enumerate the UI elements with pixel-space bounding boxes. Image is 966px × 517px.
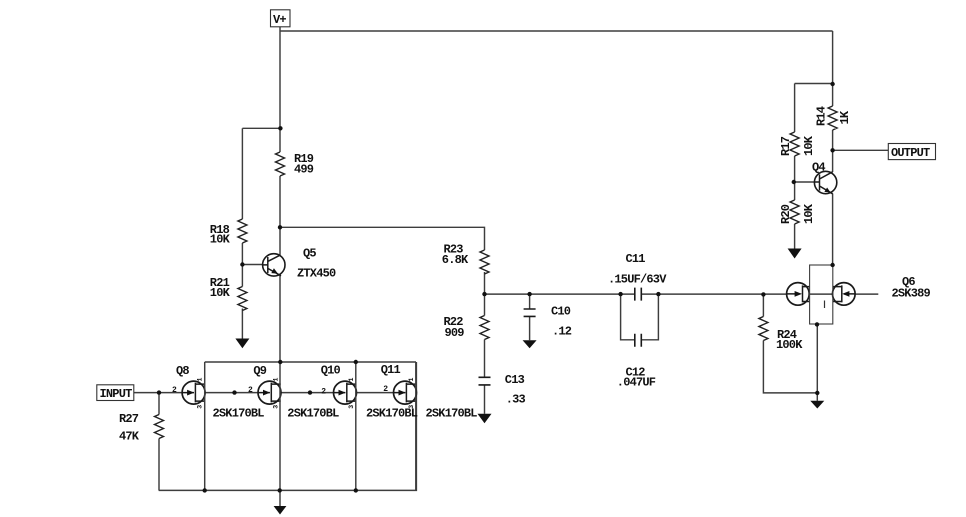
wire R27 to bottom bus xyxy=(158,439,160,491)
svg-text:909: 909 xyxy=(445,326,465,340)
node Q6 ground xyxy=(815,391,819,395)
svg-text:2: 2 xyxy=(248,386,253,395)
wire R24 stem top xyxy=(762,294,764,316)
svg-text:R17: R17 xyxy=(779,136,793,156)
resistor R27 47K xyxy=(155,415,164,439)
resistor R21 10K xyxy=(238,287,247,311)
svg-text:10K: 10K xyxy=(210,233,231,247)
wire V+ stem down to R19 xyxy=(279,27,281,152)
node INPUT/R27 xyxy=(157,390,161,394)
resistor R14 1K xyxy=(828,106,837,130)
node R18/R21/Q5 base xyxy=(240,262,244,266)
port box V+ xyxy=(271,10,291,27)
svg-text:C10: C10 xyxy=(551,305,571,319)
Q6 package box xyxy=(810,265,833,324)
node Q4 base xyxy=(792,180,796,184)
svg-text:.047UF: .047UF xyxy=(617,376,656,390)
capacitor C12 .047UF xyxy=(635,334,642,347)
resistor R24 100K xyxy=(759,317,768,341)
node R19/Q5 collector xyxy=(278,225,282,229)
capacitor C13 .33 xyxy=(479,377,491,385)
node Q6 drain top xyxy=(830,263,834,267)
svg-text:OUTPUT: OUTPUT xyxy=(891,146,930,160)
ground below C10 xyxy=(523,340,537,348)
wire jog left at node A xyxy=(242,127,280,129)
node R24 tap xyxy=(761,292,765,296)
JFET drain/source vertical wires xyxy=(205,362,416,490)
capacitor C10 .12 xyxy=(524,309,536,316)
svg-text:R14: R14 xyxy=(815,106,829,126)
wire gate bus Q8-Q11 xyxy=(159,392,406,394)
node gate bus a xyxy=(232,390,236,394)
svg-text:.33: .33 xyxy=(506,392,526,406)
svg-text:3: 3 xyxy=(197,405,204,409)
node C11 left xyxy=(618,292,622,296)
svg-text:R20: R20 xyxy=(779,204,793,224)
wire R22 to C13 xyxy=(484,340,486,378)
wire output node to OUTPUT xyxy=(833,149,889,151)
wire top rail xyxy=(280,30,833,32)
svg-text:10K: 10K xyxy=(210,286,231,300)
wire branch to R17 xyxy=(795,83,833,85)
svg-text:3: 3 xyxy=(408,405,415,409)
node drain bus Q10 xyxy=(354,360,358,364)
wire R21 to ground xyxy=(241,309,243,339)
wire signal right of C11 xyxy=(641,293,878,295)
svg-text:R27: R27 xyxy=(119,412,139,426)
svg-text:1: 1 xyxy=(408,378,415,382)
svg-text:3: 3 xyxy=(348,405,355,409)
transistor Q5 ZTX450 circle xyxy=(263,254,285,276)
svg-text:499: 499 xyxy=(294,163,314,177)
svg-text:47K: 47K xyxy=(119,429,140,443)
node source bus Q10 xyxy=(354,488,358,492)
wire INPUT to node xyxy=(134,392,159,394)
resistor R20 10K xyxy=(790,200,799,224)
ground below C13 xyxy=(478,414,492,424)
resistor R18 10K xyxy=(238,219,247,243)
node C11 right xyxy=(656,292,660,296)
svg-text:10K: 10K xyxy=(802,135,816,156)
JFET Q9 2SK170BL xyxy=(258,381,281,404)
svg-text:Q9: Q9 xyxy=(253,364,266,378)
wire bottom source bus xyxy=(159,362,417,490)
node Q6 source bottom xyxy=(815,322,819,326)
ground bottom center xyxy=(274,506,287,515)
JFET Q11 2SK170BL xyxy=(394,381,417,404)
wire signal left of C11 xyxy=(485,293,635,295)
svg-text:3: 3 xyxy=(272,405,279,409)
wire Q4 collector xyxy=(832,150,834,172)
wire left column down to R18 xyxy=(241,128,243,219)
svg-text:2SK170BL: 2SK170BL xyxy=(426,407,478,421)
wire Q4 emitter down to Q6 xyxy=(832,194,834,266)
node R23/R22 junction xyxy=(482,292,486,296)
Q6 pin 1 mark xyxy=(824,301,826,309)
wire C12 loop xyxy=(621,294,659,340)
port box OUTPUT xyxy=(888,144,935,160)
svg-text:.12: .12 xyxy=(552,325,572,339)
ground below Q6 xyxy=(810,401,824,409)
node drain bus Q9 xyxy=(278,360,282,364)
node gate bus b xyxy=(308,390,312,394)
node source bus Q9 xyxy=(278,488,282,492)
dual JFET Q6 2SK389 right half xyxy=(833,283,856,306)
svg-text:V+: V+ xyxy=(273,13,286,27)
resistor R23 6.8K xyxy=(480,250,489,274)
wire R27 stem xyxy=(158,393,160,415)
svg-text:Q5: Q5 xyxy=(303,246,316,260)
svg-text:C13: C13 xyxy=(505,373,525,387)
svg-text:1: 1 xyxy=(348,378,355,382)
node source bus Q8 xyxy=(203,488,207,492)
wire R17 stem xyxy=(794,84,796,133)
wire top drain bus xyxy=(205,361,416,363)
wire center ground stem xyxy=(279,490,281,506)
svg-text:.15UF/63V: .15UF/63V xyxy=(608,273,667,287)
svg-text:1: 1 xyxy=(272,378,279,382)
transistor Q4 circle xyxy=(814,171,836,194)
svg-text:Q4: Q4 xyxy=(812,161,825,175)
wire Q5 base xyxy=(242,264,263,266)
svg-text:2SK170BL: 2SK170BL xyxy=(213,407,265,421)
node V+/R18 branch xyxy=(278,126,282,130)
svg-text:1: 1 xyxy=(197,378,204,382)
svg-text:2SK170BL: 2SK170BL xyxy=(287,407,339,421)
svg-text:10K: 10K xyxy=(802,203,816,224)
port box INPUT xyxy=(97,385,134,401)
JFET Q10 2SK170BL xyxy=(334,381,357,404)
wire R20 to ground xyxy=(794,224,796,249)
resistor R19 499 xyxy=(155,106,838,439)
svg-text:2: 2 xyxy=(321,388,326,397)
svg-text:ZTX450: ZTX450 xyxy=(297,267,336,281)
JFET Q8 2SK170BL xyxy=(182,381,205,404)
resistor R17 10K xyxy=(790,132,799,156)
wire Q5 emitter down xyxy=(279,275,281,363)
svg-text:2: 2 xyxy=(383,385,388,394)
resistor R22 909 xyxy=(480,316,489,340)
ground below R21 xyxy=(235,249,824,515)
svg-text:1K: 1K xyxy=(838,110,852,124)
node C10 tap xyxy=(527,292,531,296)
wire C10 stem bottom xyxy=(529,316,531,340)
dual JFET Q6 2SK389 left half xyxy=(787,283,810,306)
wire R19 to Q5 collector xyxy=(279,176,281,255)
svg-text:Q8: Q8 xyxy=(176,364,189,378)
svg-text:Q11: Q11 xyxy=(381,363,401,377)
svg-text:2: 2 xyxy=(172,386,177,395)
svg-text:2SK389: 2SK389 xyxy=(892,286,931,300)
wire R23 to R22 xyxy=(484,272,486,316)
wire R18 to R21 xyxy=(241,243,243,287)
wire R14 to output node xyxy=(832,130,834,150)
svg-text:C11: C11 xyxy=(626,252,646,266)
ground below R20 xyxy=(788,249,802,259)
wire R17 to R20 xyxy=(794,156,796,200)
node R14/R17 branch xyxy=(830,82,834,86)
node output xyxy=(830,148,834,152)
wire collector node to R23 xyxy=(280,227,485,250)
wire C10 stem top xyxy=(529,294,531,309)
capacitor C11 .15UF/63V xyxy=(635,288,642,301)
wire Q6 source to ground xyxy=(816,324,818,400)
wire C13 to ground xyxy=(484,385,486,414)
wire right column rail to R14 xyxy=(832,31,834,106)
svg-text:6.8K: 6.8K xyxy=(442,253,469,267)
svg-text:INPUT: INPUT xyxy=(100,387,133,401)
svg-text:100K: 100K xyxy=(776,338,803,352)
svg-text:Q10: Q10 xyxy=(321,364,341,378)
wire R24 bottom to ground node xyxy=(763,341,817,393)
wire Q4 base xyxy=(795,181,815,183)
